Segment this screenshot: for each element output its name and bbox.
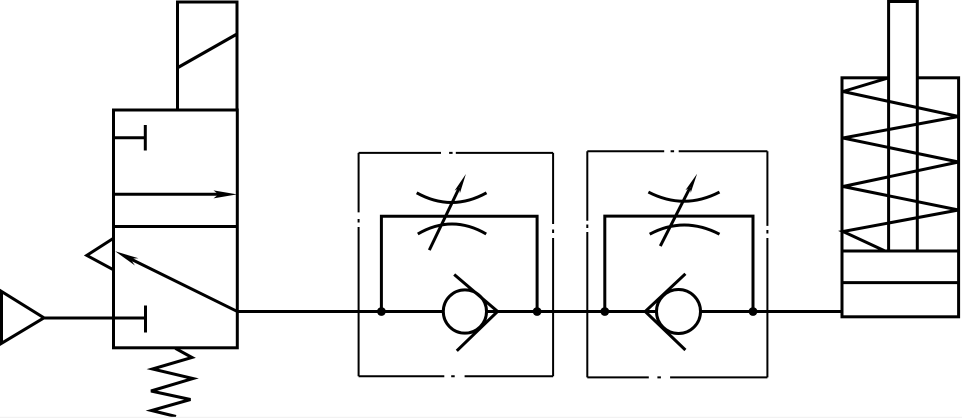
bottom position blocked port T xyxy=(114,306,146,333)
cylinder piston top line xyxy=(842,250,959,253)
solenoid U1 box xyxy=(178,2,238,110)
F2 check valve ball xyxy=(657,290,701,334)
pressure source triangle xyxy=(2,292,45,344)
F2 check valve seat chevron xyxy=(645,274,685,350)
node: F1 right junction dot xyxy=(533,307,542,316)
cylinder return spring xyxy=(843,78,959,251)
cylinder piston bottom line xyxy=(842,281,959,284)
F2 throttle adjust arrow xyxy=(660,188,690,247)
valve V1 body xyxy=(114,110,238,348)
faint bottom edge artifact xyxy=(0,417,962,418)
top position flow arrow xyxy=(114,193,220,196)
cylinder C1 barrel xyxy=(842,78,959,317)
F2 throttle arcs xyxy=(648,192,719,201)
wire: supply pipe to valve P port xyxy=(44,317,114,320)
valve return spring xyxy=(151,348,193,416)
top position blocked port T xyxy=(114,125,146,151)
F1 throttle adjust arrow xyxy=(429,188,459,250)
flow control box F2 dash-dot frame xyxy=(587,150,767,152)
cylinder piston rod xyxy=(889,2,918,252)
node: F2 right junction dot xyxy=(749,307,758,316)
F1 check valve ball xyxy=(443,290,486,333)
bottom position diagonal arrow (out to exhaust) xyxy=(130,259,237,312)
node: F2 left junction dot xyxy=(600,307,609,316)
exhaust chevron xyxy=(87,238,114,270)
F1 check valve seat chevron xyxy=(454,275,497,351)
valve position divider xyxy=(114,225,238,228)
node: F1 left junction dot xyxy=(377,307,386,316)
F2 bypass loop xyxy=(605,216,753,311)
solenoid diagonal stroke xyxy=(178,34,237,68)
F1 bypass loop xyxy=(381,216,537,311)
F1 throttle arcs xyxy=(417,193,487,203)
flow control box F1 dash-dot frame xyxy=(359,152,553,154)
wire: main pipe from valve output to cylinder port xyxy=(236,310,843,313)
